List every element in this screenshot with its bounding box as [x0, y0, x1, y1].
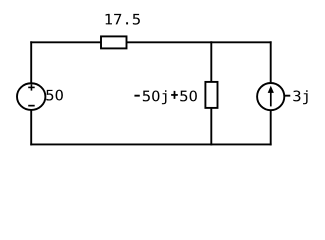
wire: left vertical upper (top wire down to voltage source) [30, 41, 32, 84]
wire: middle vertical lower (impedance box down to bottom wire) [210, 107, 212, 145]
wire: top-left horizontal segment (left node to resistor) [30, 41, 102, 43]
wire: bottom horizontal [30, 143, 271, 145]
arrow shaft inside I1 [270, 92, 272, 107]
wire: left vertical lower (voltage source down to bottom wire) [30, 110, 32, 145]
value label 50 [46, 90, 63, 101]
wire: middle vertical upper (top wire down to impedance box) [210, 41, 212, 83]
arrow head inside I1 [268, 86, 274, 93]
resistor R1 17.5 ohm (horizontal box) [101, 36, 127, 48]
plus sign inside V1 [28, 84, 35, 90]
value label -50j+50 [135, 90, 197, 104]
value label 17.5 [106, 14, 140, 25]
voltage source V1 (circle symbol) [17, 83, 45, 110]
wire: right vertical upper (top wire down to current source) [270, 41, 272, 84]
minus sign inside V1 [28, 105, 35, 107]
current source I1 (circle with up arrow) [257, 83, 284, 110]
wire: top-right horizontal segment (resistor to right node) [126, 41, 272, 43]
circuit schematic: AC source network [0, 0, 325, 164]
wire: right vertical lower (current source down to bottom wire) [270, 110, 272, 145]
impedance Z1 -50j+50 (vertical box) [205, 82, 217, 108]
value label -3j [285, 90, 308, 104]
